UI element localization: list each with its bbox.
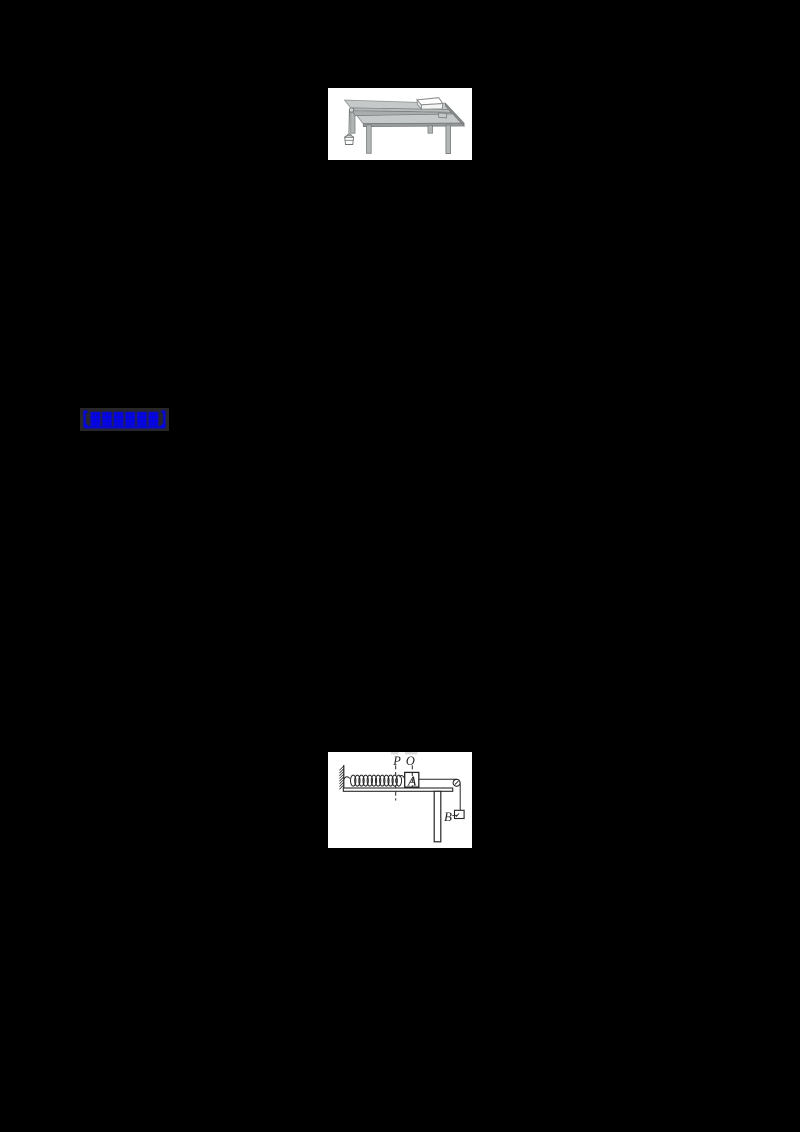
front-right leg [446, 125, 451, 154]
table top [343, 788, 452, 791]
string A to pulley [419, 778, 457, 780]
wall [343, 765, 345, 788]
track board top on table [352, 108, 451, 112]
back-left leg [351, 112, 355, 133]
tabletop right edge band [445, 103, 464, 126]
ticker timer on right [439, 113, 447, 118]
string down from pulley [348, 111, 350, 134]
B pointer dash [452, 814, 458, 817]
dashed line O [411, 765, 413, 791]
front-left leg [367, 125, 372, 153]
table leg [434, 791, 441, 842]
figure 2: spring block pulley diagram [328, 752, 472, 848]
figure 1: table experiment image [328, 88, 472, 160]
block B [455, 810, 465, 818]
dashed line P [395, 765, 397, 800]
block A [405, 772, 419, 787]
spring right connector [400, 776, 405, 779]
hyperlink watermark box [80, 408, 169, 431]
tabletop top surface [345, 100, 464, 124]
hanging bucket [345, 134, 354, 145]
svg-text:B: B [444, 809, 452, 824]
pulley [453, 779, 460, 786]
svg-text:O: O [406, 754, 415, 768]
pulley axle tick [455, 781, 459, 784]
svg-text:A: A [407, 775, 417, 790]
tabletop front edge band [363, 123, 464, 127]
string down to B [459, 783, 461, 811]
back-middle leg [428, 125, 433, 133]
white box on track [417, 98, 443, 110]
track board front edge [352, 111, 451, 116]
faint top artifacts [391, 752, 399, 754]
spring coils [351, 775, 402, 786]
pulley at left table corner [349, 108, 353, 112]
spring left connector [344, 777, 350, 780]
wall hatching [339, 766, 343, 789]
svg-text:P: P [392, 754, 401, 768]
